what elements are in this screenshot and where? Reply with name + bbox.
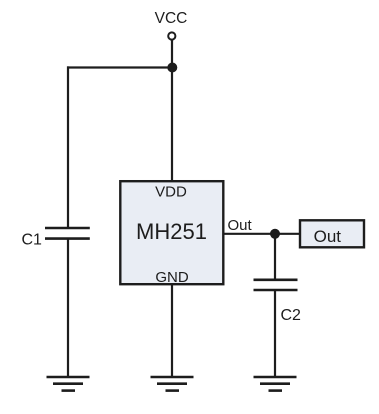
junction dot at Out branch: [270, 229, 280, 239]
svg-text:C1: C1: [22, 232, 43, 249]
wire VCC circle to VDD pin: [171, 40, 173, 181]
wire GND pin to ground: [171, 284, 173, 377]
ground (middle, under MH251): [151, 377, 194, 391]
ground (right, under C2): [254, 377, 297, 391]
svg-text:MH251: MH251: [136, 219, 207, 244]
capacitor C2: [254, 280, 298, 290]
VCC terminal circle: [168, 32, 175, 39]
wire C1 to ground: [67, 239, 69, 377]
svg-text:Out: Out: [228, 217, 253, 234]
svg-text:VDD: VDD: [155, 184, 187, 201]
svg-text:C2: C2: [281, 307, 302, 324]
svg-text:Out: Out: [314, 227, 342, 246]
wire C2 to ground: [274, 290, 276, 377]
svg-text:VCC: VCC: [155, 10, 188, 27]
wire junction down to C2: [274, 234, 276, 280]
op-amp U1 MH251 body: [120, 181, 223, 284]
node Out port box: [300, 220, 364, 247]
svg-text:GND: GND: [155, 269, 189, 286]
ground (left, under C1): [47, 377, 90, 391]
capacitor C1: [45, 228, 90, 239]
wire left branch down to C1: [67, 66, 69, 228]
wire Out pin to Out box: [223, 233, 299, 235]
junction dot at VCC branch: [167, 63, 177, 73]
wire junction to left branch: [67, 66, 172, 68]
